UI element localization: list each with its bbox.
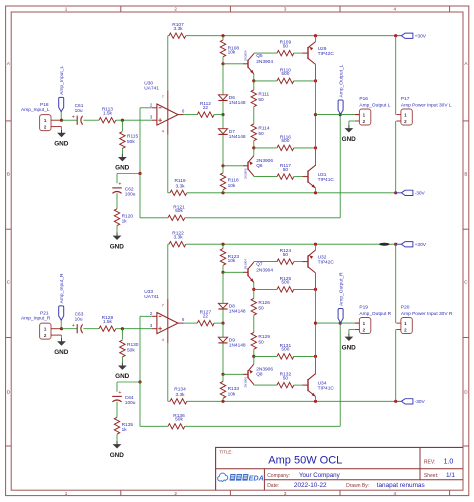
pin stub U29 base — [303, 52, 309, 54]
transistor U31 — [308, 165, 334, 188]
junction rail-U29 — [314, 243, 317, 246]
svg-text:GND: GND — [342, 136, 357, 143]
svg-text:Drawn By:: Drawn By: — [346, 483, 369, 489]
wire to R118 — [222, 374, 224, 381]
wire R116 right — [294, 355, 316, 357]
svg-text:TIP41C: TIP41C — [318, 177, 335, 183]
wire P16 pin2 to gnd — [349, 330, 355, 334]
wire D7 to Q6 base node — [222, 135, 224, 166]
wire input to C — [62, 328, 78, 330]
power flag -30V L — [396, 190, 426, 197]
svg-text:P18: P18 — [40, 102, 49, 108]
wire +30V rail — [168, 35, 169, 37]
wire opamp V- wire — [167, 343, 169, 401]
svg-text:R119: R119 — [174, 178, 185, 184]
resistor R117 — [277, 163, 294, 179]
title block — [216, 447, 463, 490]
wire -30V rail lead — [168, 400, 170, 402]
junction Q5 emitter node — [252, 79, 255, 82]
resistor R111 — [251, 90, 269, 107]
svg-text:100u: 100u — [125, 400, 136, 406]
wire U31 collector up — [315, 148, 317, 165]
svg-text:TITLE:: TITLE: — [219, 450, 232, 455]
resistor R132 — [277, 372, 294, 388]
wire R109 to U29 — [294, 52, 303, 54]
svg-text:50: 50 — [283, 252, 289, 258]
junction railB-U31 — [314, 400, 317, 403]
svg-text:10k: 10k — [228, 392, 236, 398]
connector P20 — [396, 305, 453, 334]
wire R116 left — [254, 147, 277, 149]
junction rail-U29 — [314, 34, 317, 37]
ground under R120 — [110, 232, 125, 250]
diode D6 — [218, 95, 246, 106]
junction fb node — [138, 380, 141, 383]
svg-text:U32: U32 — [318, 254, 327, 260]
pin stub U31 base — [303, 384, 309, 386]
wire R to opamp+ — [116, 328, 152, 330]
net flag Amp_Input_R — [59, 273, 65, 329]
svg-text:1N4148: 1N4148 — [229, 309, 246, 315]
svg-text:50: 50 — [283, 375, 289, 381]
wire U29 collector down — [315, 273, 317, 290]
diode D9 — [218, 337, 246, 348]
junction railB-R118 — [221, 400, 224, 403]
wire C to R1k — [116, 402, 118, 418]
wire U31 collector up — [315, 356, 317, 373]
wire D7 to Q6 base node — [222, 343, 224, 374]
svg-text:2N3906: 2N3906 — [244, 168, 248, 179]
resistor R119 — [170, 178, 187, 195]
resistor R116 — [277, 134, 294, 150]
wire R1k to gnd — [116, 226, 118, 233]
logo JLC EDA — [218, 473, 264, 483]
svg-text:C62: C62 — [125, 187, 134, 193]
connector P18 — [21, 102, 62, 131]
wire P17 to -30V — [395, 121, 397, 193]
svg-text:B: B — [7, 172, 10, 177]
wire fb node to C — [117, 174, 140, 184]
junction railB-U31 — [314, 191, 317, 194]
wire U29 emitter to rail — [315, 244, 317, 250]
svg-text:3.3k: 3.3k — [175, 392, 185, 398]
wire output column — [315, 273, 317, 374]
power flag +30V L — [396, 33, 427, 40]
svg-text:10k: 10k — [228, 50, 236, 56]
wire to D7 — [222, 323, 224, 337]
svg-text:Your Company: Your Company — [299, 472, 341, 479]
svg-text:U33: U33 — [144, 289, 153, 295]
wire opamp V+ wire — [167, 36, 169, 91]
svg-text:2: 2 — [174, 491, 177, 496]
op-amp supply pins — [167, 299, 169, 343]
svg-text:7: 7 — [162, 303, 164, 307]
wire output wire — [316, 322, 355, 324]
wire fb to output — [185, 323, 340, 426]
wire Q6 emi up — [253, 148, 255, 156]
svg-text:1/1: 1/1 — [446, 472, 455, 479]
wire R111-R114 — [253, 315, 255, 332]
junction output node — [314, 113, 317, 116]
svg-text:1: 1 — [65, 7, 68, 12]
resistor R121 — [168, 204, 185, 220]
wire P16 pin2 to gnd — [349, 121, 355, 125]
svg-text:2N3904: 2N3904 — [244, 50, 248, 61]
wire base wire Q6 — [223, 373, 243, 375]
svg-text:EDA: EDA — [249, 474, 264, 483]
svg-text:22: 22 — [203, 313, 209, 319]
svg-text:U29: U29 — [318, 46, 327, 52]
wire R108 to base node — [222, 57, 224, 64]
svg-text:Date:: Date: — [267, 483, 279, 489]
power flag +30V R — [396, 242, 427, 249]
pin stub Q5 base — [243, 63, 248, 65]
pin stub U31 base — [303, 176, 309, 178]
junction R110 out node — [314, 288, 317, 291]
svg-text:TIP42C: TIP42C — [318, 51, 335, 57]
svg-text:Amp_Input_L: Amp_Input_L — [59, 66, 65, 95]
transistor Q5 — [244, 50, 274, 74]
svg-text:C61: C61 — [75, 103, 84, 109]
svg-text:10k: 10k — [228, 258, 236, 264]
svg-text:UA741: UA741 — [144, 294, 159, 300]
transistor Q7 — [244, 259, 274, 283]
wire +30V rail 2 — [186, 243, 396, 245]
ground under P16 — [342, 125, 357, 143]
svg-text:R129: R129 — [258, 334, 270, 340]
wire fb node to C — [117, 382, 140, 392]
capacitor C62 — [112, 182, 136, 198]
svg-text:2N3904: 2N3904 — [244, 259, 248, 270]
net flag Amp_Output_L — [338, 64, 345, 114]
ground under P19 — [342, 333, 357, 351]
svg-text:U31: U31 — [318, 172, 327, 178]
pin stub Q6 base — [243, 373, 248, 375]
wire +30V rail — [168, 243, 169, 245]
svg-text:tanapat renumas: tanapat renumas — [377, 482, 425, 489]
junction railB-flag — [394, 400, 397, 403]
svg-text:2N3906: 2N3906 — [256, 366, 273, 372]
svg-text:+: + — [72, 115, 75, 121]
diode D7 — [218, 129, 246, 140]
svg-text:Q7: Q7 — [256, 262, 263, 268]
ground under R115 — [115, 154, 130, 172]
wire +30V rail 2 — [186, 35, 396, 37]
junction fb tap — [339, 113, 342, 116]
wire opamp out — [184, 114, 198, 116]
wire Q6 col down — [254, 175, 277, 178]
junction Q5 emitter node — [252, 288, 255, 291]
wire to R111 — [253, 289, 255, 298]
wire C to R — [83, 328, 99, 330]
wire C to R — [83, 119, 99, 121]
svg-text:500: 500 — [281, 347, 289, 353]
junction R116 out node — [314, 146, 317, 149]
connector P17 — [396, 96, 452, 125]
svg-text:Amp_Input_R: Amp_Input_R — [59, 273, 65, 303]
connector P21 — [21, 310, 62, 339]
svg-text:50: 50 — [258, 97, 264, 103]
svg-text:50: 50 — [258, 339, 264, 345]
svg-text:R114: R114 — [258, 125, 269, 131]
svg-text:GND: GND — [342, 344, 357, 351]
svg-text:REV:: REV: — [424, 459, 435, 465]
wire rail to R108 — [222, 36, 224, 40]
wire input to C — [62, 119, 78, 121]
svg-text:Q5: Q5 — [256, 53, 263, 59]
resistor R129 — [251, 332, 270, 349]
transistor U32 — [308, 250, 334, 273]
wire down to Rgnd — [121, 329, 123, 340]
junction railB-R118 — [221, 191, 224, 194]
svg-text:2: 2 — [174, 7, 177, 12]
svg-text:D9: D9 — [229, 337, 235, 343]
wire R110 right — [294, 288, 316, 290]
svg-text:C64: C64 — [125, 395, 134, 401]
resistor R135 — [114, 417, 133, 434]
svg-text:1k: 1k — [122, 427, 128, 433]
resistor R108 — [220, 40, 239, 57]
svg-text:50: 50 — [283, 167, 289, 173]
junction driver mid node — [221, 322, 224, 325]
resistor R114 — [251, 124, 270, 141]
resistor R131 — [277, 343, 294, 359]
svg-text:500: 500 — [281, 71, 289, 77]
op-amp U30 — [144, 81, 185, 134]
svg-text:R134: R134 — [174, 387, 186, 393]
pin stub Q5 base — [243, 271, 248, 273]
resistor R109 — [277, 40, 294, 56]
svg-text:-30V: -30V — [415, 191, 426, 197]
wire -30V rail lead — [168, 192, 170, 194]
wire R114 down — [253, 141, 255, 148]
svg-text:1: 1 — [65, 491, 68, 496]
wire input port to gnd — [61, 335, 63, 338]
svg-text:3: 3 — [284, 7, 287, 12]
junction driver mid node — [221, 113, 224, 116]
svg-text:4: 4 — [394, 491, 397, 496]
svg-text:Q8: Q8 — [256, 372, 263, 378]
wire +30V to P17 — [395, 244, 397, 323]
junction Q6 emitter node — [252, 355, 255, 358]
svg-text:50: 50 — [258, 305, 264, 311]
wire Q6 col down — [254, 383, 277, 386]
svg-text:-30V: -30V — [415, 399, 426, 405]
svg-text:C63: C63 — [75, 311, 84, 317]
wire fb to output — [185, 115, 340, 218]
svg-text:+: + — [72, 323, 75, 329]
svg-text:100u: 100u — [125, 192, 136, 198]
wire pin2 wire — [140, 108, 152, 174]
marker on +30V rail R — [379, 243, 389, 246]
svg-text:B: B — [464, 172, 467, 177]
svg-text:GND: GND — [54, 141, 69, 148]
svg-text:U34: U34 — [318, 380, 327, 386]
wire to D6 — [222, 64, 224, 95]
wire U29 collector down — [315, 64, 317, 81]
wire Q5 col to R109 — [254, 261, 277, 264]
svg-text:10u: 10u — [75, 317, 83, 323]
svg-text:50k: 50k — [175, 208, 183, 214]
svg-text:4: 4 — [162, 338, 164, 342]
wire U29 emitter to rail — [315, 36, 317, 42]
svg-text:22: 22 — [203, 105, 209, 111]
wire R116 left — [254, 355, 277, 357]
wire to D6 — [222, 272, 224, 303]
svg-text:2022-10-22: 2022-10-22 — [294, 482, 327, 489]
wire R112 to mid — [214, 322, 223, 324]
junction R116 out node — [314, 355, 317, 358]
resistor R122 — [169, 231, 186, 247]
transistor Q6 — [244, 156, 274, 179]
svg-text:10u: 10u — [75, 108, 83, 114]
svg-text:GND: GND — [110, 452, 125, 459]
svg-text:P21: P21 — [40, 310, 49, 316]
junction output node — [314, 322, 317, 325]
resistor R136 — [168, 413, 185, 429]
wire Rgnd to gnd — [121, 357, 123, 362]
wire input port to gnd — [61, 127, 63, 130]
junction Q6 base node — [221, 373, 224, 376]
svg-text:UA741: UA741 — [144, 86, 159, 92]
wire Rgnd to gnd — [121, 148, 123, 153]
connector P19 — [355, 305, 392, 334]
svg-text:P16: P16 — [359, 96, 368, 102]
wire fb down — [140, 174, 168, 218]
svg-text:GND: GND — [110, 243, 125, 250]
wire Q5 col to R109 — [254, 52, 277, 55]
wire R114 down — [253, 349, 255, 356]
capacitor C64 — [112, 390, 136, 406]
svg-text:2N3906: 2N3906 — [244, 377, 248, 388]
resistor R118 — [220, 173, 239, 190]
wire R110 left — [254, 80, 277, 82]
net flag Amp_Output_R — [338, 272, 345, 323]
svg-text:Sheet:: Sheet: — [424, 473, 438, 479]
svg-text:3.3k: 3.3k — [173, 26, 183, 32]
svg-text:R133: R133 — [228, 386, 240, 392]
junction railB-flag — [394, 191, 397, 194]
svg-text:Amp_Input_R: Amp_Input_R — [21, 316, 51, 322]
power flag -30V R — [396, 399, 426, 406]
junction Q6 base node — [221, 164, 224, 167]
resistor R115 — [120, 132, 139, 149]
wire down to Rgnd — [121, 120, 123, 131]
wire opamp V+ wire — [167, 244, 169, 299]
svg-text:Amp_Input_L: Amp_Input_L — [21, 107, 50, 113]
wire R118 to rail — [222, 190, 224, 193]
wire D6 to mid — [222, 310, 224, 324]
svg-text:3: 3 — [284, 491, 287, 496]
svg-text:2N3904: 2N3904 — [256, 59, 273, 65]
junction Q5 base node — [221, 62, 224, 65]
svg-text:Amp Power Input 30V L: Amp Power Input 30V L — [401, 102, 452, 108]
op-amp U33 — [144, 289, 185, 342]
junction pin3 node — [121, 119, 124, 122]
wire -30V rail — [187, 400, 396, 402]
wire Q5 emi down — [253, 282, 255, 289]
wire base wire Q5 — [223, 63, 243, 65]
junction rail-flag — [394, 34, 397, 37]
svg-text:500: 500 — [281, 280, 289, 286]
svg-text:R111: R111 — [258, 91, 269, 97]
svg-text:Amp 50W OCL: Amp 50W OCL — [268, 454, 342, 466]
junction rail-flag — [394, 243, 397, 246]
wire R1k to gnd — [116, 434, 118, 441]
resistor R128 — [99, 315, 116, 331]
wire R117 to U31 — [294, 384, 303, 386]
svg-text:500: 500 — [281, 138, 289, 144]
connector P16 — [355, 96, 391, 125]
svg-text:TIP42C: TIP42C — [318, 260, 335, 266]
capacitor C61 — [72, 103, 84, 125]
svg-text:U30: U30 — [144, 81, 153, 87]
wire -30V rail — [187, 192, 396, 194]
svg-text:GND: GND — [115, 165, 130, 172]
svg-text:Amp_Output R: Amp_Output R — [359, 311, 391, 317]
transistor Q8 — [244, 364, 274, 387]
svg-text:50k: 50k — [127, 347, 135, 353]
svg-text:D8: D8 — [229, 304, 235, 310]
svg-text:GND: GND — [115, 373, 130, 380]
junction input node — [60, 119, 63, 122]
resistor R124 — [277, 248, 294, 264]
svg-text:50: 50 — [258, 131, 264, 137]
ground under P21 — [54, 338, 69, 356]
svg-text:1k: 1k — [122, 218, 128, 224]
svg-text:2N3904: 2N3904 — [256, 268, 273, 274]
svg-text:P19: P19 — [359, 305, 368, 311]
svg-text:1.0: 1.0 — [444, 459, 454, 466]
resistor R113 — [99, 107, 116, 123]
junction Q5 base node — [221, 271, 224, 274]
resistor R110 — [277, 67, 294, 83]
svg-text:1N4148: 1N4148 — [229, 100, 246, 106]
resistor R133 — [220, 381, 239, 398]
wire R118 to rail — [222, 398, 224, 401]
svg-text:P17: P17 — [401, 96, 410, 102]
resistor R130 — [120, 340, 139, 357]
svg-text:R118: R118 — [228, 178, 239, 184]
wire R112 to mid — [214, 114, 223, 116]
svg-text:R130: R130 — [127, 342, 139, 348]
wire R110 right — [294, 80, 316, 82]
svg-text:R115: R115 — [127, 134, 138, 140]
op-amp supply pins — [167, 91, 169, 135]
svg-text:4: 4 — [394, 7, 397, 12]
wire P17 to -30V — [395, 330, 397, 402]
wire base wire Q5 — [223, 271, 243, 273]
pin stub U29 base — [303, 261, 309, 263]
svg-text:50: 50 — [283, 43, 289, 49]
wire fb down — [140, 382, 168, 426]
junction fb node — [138, 172, 141, 175]
wire Q5 emi down — [253, 74, 255, 81]
wire C to R1k — [116, 193, 118, 209]
wire R109 to U29 — [294, 261, 303, 263]
svg-text:1.5k: 1.5k — [103, 111, 113, 117]
wire output wire — [316, 114, 355, 116]
svg-text:+: + — [118, 182, 121, 188]
wire R116 right — [294, 147, 316, 149]
wire pin2 wire — [140, 316, 152, 382]
svg-text:D7: D7 — [229, 129, 235, 135]
svg-text:50k: 50k — [127, 139, 135, 145]
wire to D7 — [222, 115, 224, 129]
svg-text:TIP41C: TIP41C — [318, 386, 335, 392]
resistor R125 — [277, 276, 294, 292]
wire R108 to base node — [222, 265, 224, 272]
